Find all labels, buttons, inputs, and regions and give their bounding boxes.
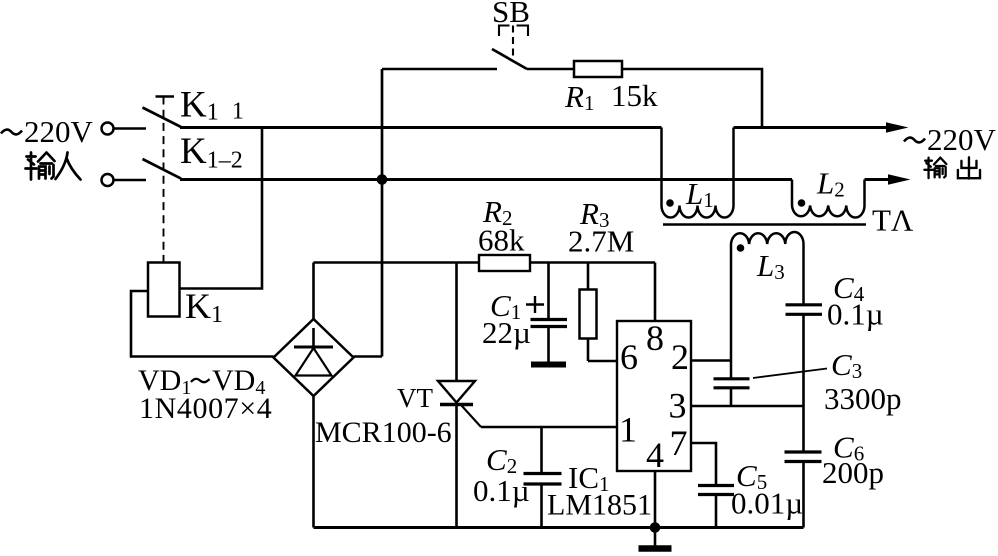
wire SB to R1 (527, 68, 574, 71)
inductor L3 (TA secondary) (731, 232, 804, 379)
svg-text:C3: C3 (831, 347, 862, 383)
wire bottom rail (314, 526, 804, 529)
inductor L1 (TA primary) (662, 128, 734, 218)
svg-text:VT: VT (397, 383, 433, 413)
resistor R2 (479, 255, 530, 271)
wire line1 left (to L1) (180, 126, 662, 129)
wire bridge bottom to rail (312, 396, 315, 528)
svg-text:22µ: 22µ (482, 315, 531, 350)
svg-text:SB: SB (492, 0, 530, 29)
wire bridge right vertex (354, 355, 383, 358)
wire bridge top to R2 line (312, 263, 315, 320)
svg-text:K1–2: K1–2 (180, 131, 243, 174)
svg-text:K11: K11 (180, 85, 244, 126)
svg-text:4: 4 (646, 435, 664, 475)
ground bar of C1 (531, 362, 566, 368)
svg-text:MCR100-6: MCR100-6 (315, 416, 452, 449)
svg-text:R1: R1 (564, 79, 594, 115)
relay coil K1 (148, 263, 180, 317)
wire R2 line (314, 261, 656, 263)
label C6 200p (822, 430, 884, 491)
capacitor C5 (698, 486, 734, 528)
node phase dot L1 (666, 199, 674, 207)
op-amp U1 IC box (617, 321, 691, 471)
label ~220V input (1, 114, 94, 149)
wire (114, 127, 147, 130)
label C4 0.1u (827, 270, 884, 332)
label C3 3300p with callout (753, 347, 902, 416)
svg-text:K1: K1 (185, 286, 223, 328)
label IC1 LM1851 (547, 460, 652, 522)
svg-text:3300p: 3300p (824, 381, 902, 416)
svg-text:15k: 15k (611, 78, 658, 113)
terminal input upper (102, 123, 114, 135)
node phase dot L3 (737, 244, 745, 252)
svg-text:6: 6 (620, 337, 638, 377)
wire relay right up to line1 (180, 128, 263, 289)
svg-text:220V: 220V (24, 114, 94, 149)
wire pin2 (691, 359, 731, 362)
node phase dot L2 (798, 199, 806, 207)
svg-text:68k: 68k (478, 223, 525, 258)
node junction on line2 (377, 174, 388, 185)
wire line1 right with arrow (734, 122, 909, 132)
label VT MCR100-6 (315, 383, 452, 449)
label R1 15k (564, 78, 658, 115)
svg-text:0.1µ: 0.1µ (473, 473, 530, 508)
wire vertical from SB down to bridge right (381, 69, 384, 357)
wire R1 right down to line1 (622, 69, 762, 128)
wire pin7 (691, 443, 716, 485)
wire pin4 to rail (654, 471, 657, 528)
wire SB left (382, 68, 497, 71)
label 输入 (input) (26, 153, 81, 180)
wire line2 (to L2) (180, 178, 792, 181)
label 输出 (output) (924, 157, 980, 178)
resistor R1 (574, 61, 622, 77)
svg-text:1N4007×4: 1N4007×4 (139, 392, 272, 425)
bridge rectifier VD1~VD4 (274, 319, 354, 396)
switch K1-2 blade (143, 159, 182, 179)
svg-text:0.1µ: 0.1µ (827, 297, 884, 332)
capacitor C2 (524, 427, 562, 528)
label C5 0.01u (731, 458, 803, 521)
svg-text:LM1851: LM1851 (547, 489, 652, 522)
wire relay left to bridge left vertex (131, 291, 274, 357)
svg-text:TΛ: TΛ (872, 203, 914, 238)
capacitor C1 (526, 263, 567, 362)
label R3 2.7M (568, 196, 634, 259)
resistor R3 (580, 263, 597, 362)
capacitor C4 (786, 305, 823, 451)
svg-text:0.01µ: 0.01µ (731, 486, 803, 521)
svg-text:2.7M: 2.7M (568, 224, 634, 259)
wire (114, 179, 147, 182)
svg-text:200p: 200p (822, 455, 884, 490)
label VD1~VD4 (138, 364, 265, 399)
svg-text:7: 7 (670, 423, 688, 463)
wire pin3 (691, 405, 804, 408)
wire pin1 (481, 426, 617, 429)
label ~220V output (904, 122, 997, 157)
pushbutton SB (492, 26, 528, 70)
wire pin6 (588, 360, 617, 363)
label C1 22u (482, 288, 531, 350)
terminal input lower (102, 174, 114, 186)
label R2 68k (478, 194, 525, 258)
mechanical linkage of K1 (156, 97, 175, 263)
node junction on rail (650, 522, 661, 533)
svg-text:L2: L2 (816, 166, 845, 202)
svg-text:L3: L3 (756, 248, 785, 284)
capacitor C3 (714, 379, 750, 406)
switch K1-1 blade (143, 108, 182, 128)
wire pin8 (654, 263, 657, 322)
label C2 0.1u (473, 442, 530, 508)
thyristor VT (438, 263, 481, 528)
svg-text:220V: 220V (927, 122, 997, 157)
svg-text:1: 1 (619, 410, 637, 450)
ground (639, 528, 672, 549)
svg-text:2: 2 (671, 337, 689, 377)
capacitor C6 (785, 452, 822, 528)
inductor L2 (TA primary) (792, 180, 865, 218)
svg-text:3: 3 (669, 386, 687, 426)
transformer TA core (663, 223, 866, 226)
wire line2 right with arrow (865, 174, 911, 184)
svg-text:L1: L1 (685, 176, 714, 212)
svg-text:8: 8 (646, 318, 664, 358)
